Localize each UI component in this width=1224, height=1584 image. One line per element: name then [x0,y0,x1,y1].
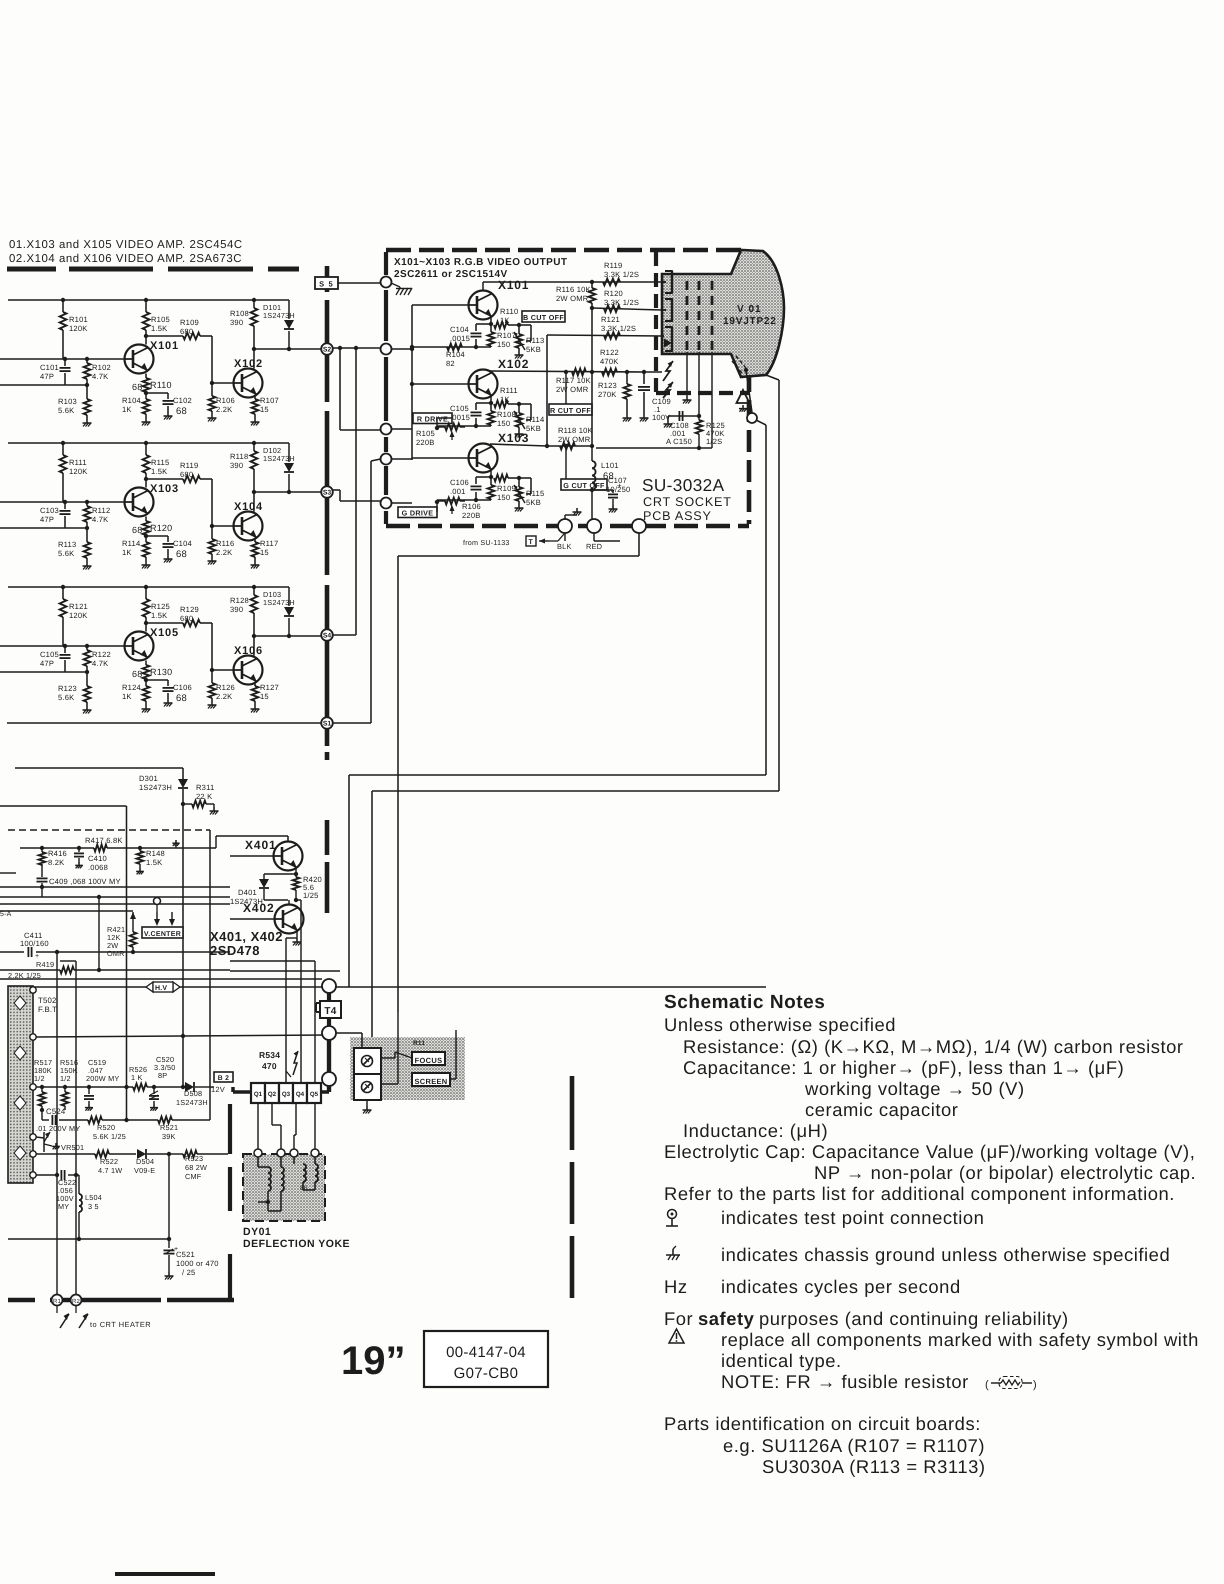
svg-text:2.2K: 2.2K [216,548,232,557]
wire S1 to R input [333,459,381,723]
svg-text:5.6K: 5.6K [58,406,74,415]
CRT block top border (heavy dashed) [386,248,749,253]
resistor R117 [556,369,591,394]
CRT block title [394,257,568,280]
FBT pin [30,987,36,993]
FBT pin [30,1151,36,1157]
resistor R101 [60,300,88,359]
ground C107 [609,505,618,513]
node 1033 [322,1026,336,1040]
svg-text:S 5: S 5 [319,280,334,289]
label box R DRIVE [413,413,452,424]
ground X402 [293,931,302,946]
CRT block inner border (heavy dashed) [656,252,749,393]
resistor R130 emitter [132,661,172,680]
svg-text:C103: C103 [40,506,59,515]
svg-text:2SC2611 or 2SC1514V: 2SC2611 or 2SC1514V [394,269,508,280]
resistor R129 [144,605,212,670]
wire focus box to label [381,1052,412,1058]
resistor R523 [169,1151,228,1181]
svg-text:1K: 1K [122,692,132,701]
svg-text:H.V: H.V [155,985,167,992]
label box FOCUS [412,1052,445,1065]
svg-text:Capacitance: 1 or higher→ (pF): Capacitance: 1 or higher→ (pF), less tha… [683,1057,1124,1078]
svg-text:R311: R311 [196,783,214,792]
capacitor C101 [40,359,71,385]
input node R [381,454,392,465]
svg-text:68: 68 [132,382,142,392]
capacitor C104 [450,324,491,347]
svg-text:02.X104 and X106 VIDEO AMP. 2S: 02.X104 and X106 VIDEO AMP. 2SA673C [9,253,242,265]
wire input row X103 [0,526,89,530]
resistor emitter [489,471,521,482]
svg-text:3.3K 1/2S: 3.3K 1/2S [604,298,639,307]
resistor R148 [136,848,165,874]
wire G2 line [698,352,700,416]
CRT block right border (heavy dashed) [747,250,752,524]
svg-text:D508: D508 [184,1089,202,1098]
capacitor C521 [164,1246,219,1277]
wire row 887 [0,885,230,889]
connector S5 [315,277,338,289]
resistor R126 [209,670,235,701]
svg-text:220B: 220B [462,511,481,520]
wire row 897 [0,895,230,899]
svg-text:R123: R123 [58,684,77,693]
svg-text:C409 ,068 100V MY: C409 ,068 100V MY [49,877,121,886]
svg-text:.01 200V MY: .01 200V MY [36,1124,80,1133]
svg-text:15: 15 [260,692,269,701]
svg-text:R121: R121 [69,602,88,611]
svg-text:3 5: 3 5 [88,1202,99,1211]
ground BLK pin [565,508,582,519]
svg-text:5.6K: 5.6K [58,549,74,558]
wire emitter bottom row [437,498,491,502]
svg-text:120K: 120K [69,324,88,333]
resistor R125 [696,416,725,450]
label box G CUT OFF [561,479,607,490]
svg-text:R121: R121 [601,315,620,324]
svg-text:Q3: Q3 [282,1091,291,1098]
svg-text:39K: 39K [162,1132,176,1141]
svg-text:R111: R111 [500,386,518,395]
ground R115 [515,504,524,512]
resistor R421 [107,912,136,958]
svg-text:C410: C410 [88,854,107,863]
label box SCREEN [412,1073,450,1086]
wire Q5 feed [314,961,316,1083]
FBT pin [30,1134,36,1140]
wire HV row [33,986,766,988]
svg-text:2W OMR: 2W OMR [556,294,589,303]
resistor R516 [60,1058,78,1110]
svg-text:R119: R119 [180,461,198,470]
spark gaps [663,361,673,398]
svg-text:470: 470 [262,1061,277,1071]
svg-text:R DRIVE: R DRIVE [417,414,448,423]
svg-text:indicates chassis ground unles: indicates chassis ground unless otherwis… [721,1244,1170,1265]
transistor X101 output [412,278,529,320]
svg-text:47P: 47P [40,372,54,381]
svg-text:L101: L101 [601,461,619,470]
transistor X103 [125,483,179,517]
ground R116 [208,557,217,565]
transistor X102 [210,358,263,398]
resistor R117 [252,539,279,561]
svg-text:R108: R108 [497,410,516,419]
resistor R103 [58,385,90,419]
svg-text:Electrolytic Cap: Capacitance: Electrolytic Cap: Capacitance Value (μF)… [664,1141,1195,1162]
resistor R119 [144,461,212,526]
svg-text:R104: R104 [446,350,465,359]
svg-text:R114: R114 [122,539,140,548]
wire emitter bottom row [437,424,491,428]
lower block bottom border (heavy dashed) [8,1298,234,1303]
svg-text:Resistance: (Ω) (K→KΩ, M→MΩ),: Resistance: (Ω) (K→KΩ, M→MΩ), 1/4 (W) ca… [683,1036,1184,1057]
spark gap Q [286,1051,298,1077]
transistor X102 output [412,357,529,399]
svg-text:R123: R123 [598,381,617,390]
svg-text:R122: R122 [600,348,619,357]
resistor R104 [122,391,149,418]
FBT pin [30,1172,36,1178]
svg-text:purposes (and continuing relia: purposes (and continuing reliability) [759,1308,1069,1329]
resistor R122 [600,348,619,375]
svg-text:R109: R109 [180,318,199,327]
wire screen wire [381,1012,398,1084]
capacitor C519 [84,1058,119,1111]
svg-text:5KB: 5KB [526,498,541,507]
svg-text:S3: S3 [323,490,332,497]
svg-text:X102: X102 [498,357,529,371]
wire input stubs [392,349,413,503]
resistor R121 [601,315,636,339]
svg-text:R419: R419 [36,960,54,969]
svg-text:X106: X106 [234,645,263,657]
right border dashed 572 [570,1076,575,1298]
svg-text:Unless otherwise specified: Unless otherwise specified [664,1014,896,1035]
notes test point icon [666,1210,678,1227]
svg-text:R521: R521 [160,1123,178,1132]
svg-text:T4: T4 [324,1006,336,1017]
transistor X105 [125,627,179,661]
svg-text:R103: R103 [58,397,77,406]
svg-text:indicates test point connectio: indicates test point connection [721,1207,984,1228]
connector S3 [321,486,333,498]
svg-text:R520: R520 [97,1123,115,1132]
svg-text:1.5K: 1.5K [151,467,167,476]
connector Q1-Q5 [251,1083,321,1103]
svg-text:R124: R124 [122,683,141,692]
svg-text:G CUT OFF: G CUT OFF [563,481,605,490]
svg-text:X401: X401 [245,838,277,852]
ground R311 [210,807,219,815]
wire anode to HV vertical [756,420,766,775]
svg-text:C105: C105 [40,650,59,659]
svg-text:200W MY: 200W MY [86,1074,119,1083]
wire B collector rail [483,280,662,291]
svg-text:RED: RED [586,542,602,551]
svg-text:47P: 47P [40,659,54,668]
svg-text:Schematic Notes: Schematic Notes [664,992,825,1013]
svg-text:390: 390 [230,605,243,614]
label C109 [652,397,671,422]
svg-text:01.X103 and X105 VIDEO AMP. 2S: 01.X103 and X105 VIDEO AMP. 2SC454C [9,239,243,251]
svg-text:safety: safety [698,1308,755,1329]
svg-text:15: 15 [260,405,269,414]
ground R114 [515,430,524,438]
transistor X106 [210,645,263,685]
CRT gun pin arrow [662,327,673,351]
resistor R106 [209,383,235,414]
wire G1 to ground [683,352,692,404]
resistor R420 [293,874,322,902]
wire S5 to block [338,282,381,284]
resistor R113 [58,528,90,562]
resistor R109 [144,318,212,383]
capacitor C410 [74,848,108,872]
wire fan rows to T4 [0,961,340,979]
svg-text:86: 86 [300,1185,308,1192]
svg-text:R106: R106 [216,396,235,405]
svg-text:R113: R113 [58,540,76,549]
svg-text:X103: X103 [150,483,179,495]
svg-text:D401: D401 [238,888,257,897]
schematic notes [664,992,825,1013]
svg-text:R125: R125 [151,602,170,611]
arrows CRT heater [57,1306,88,1328]
notes chassis ground icon [666,1246,680,1260]
label DY01 [243,1226,350,1250]
capacitor C522 [36,1170,79,1211]
resistor R115 [143,443,170,488]
svg-text:R122: R122 [92,650,111,659]
transistor X402 [230,900,304,934]
svg-text:SCREEN: SCREEN [414,1077,447,1086]
resistor R119 [603,261,639,285]
wire D301 feed [15,768,183,779]
svg-text:X103: X103 [498,431,529,445]
ground C102 [164,412,173,420]
svg-text:R522: R522 [100,1157,118,1166]
pin BLK [557,519,572,551]
wire Q4 up [296,900,301,1083]
ground R103 [83,419,92,427]
focus screen panel [350,1037,465,1100]
svg-text:3.3K 1/2S: 3.3K 1/2S [604,270,639,279]
svg-text:C101: C101 [40,363,59,372]
pin R2 [71,1295,82,1306]
svg-text:V09-E: V09-E [134,1166,155,1175]
svg-text:Q2: Q2 [268,1091,277,1098]
wire R cutoff feeds [564,372,568,479]
svg-text:R107: R107 [497,331,516,340]
resistor R311 [181,783,215,807]
svg-text:R CUT OFF: R CUT OFF [550,406,591,415]
transistor X401 [230,838,303,871]
ground top input [391,283,412,295]
wire D102 to 492connector row [252,490,321,494]
resistor R105 drive [416,418,465,447]
svg-text:S2: S2 [323,347,332,354]
yoke vertical coils [294,1157,318,1192]
resistor R522 [95,1151,136,1175]
lower block top border dashed [8,829,210,831]
wire emitter bottom row [447,345,491,349]
svg-text:R116: R116 [216,539,234,548]
node 1079 [322,1072,336,1086]
left block top border (heavy dashed) [7,267,299,272]
trimmer R114 [514,404,544,433]
label PCB ASSY [643,509,712,523]
svg-text:VR501: VR501 [61,1143,84,1152]
svg-text:Q1: Q1 [254,1091,263,1098]
resistor R118 [230,443,257,512]
connector T4 [316,1001,341,1018]
resistor R120 [604,289,639,312]
wire Q2 to yoke [272,1103,281,1150]
svg-text:R112: R112 [92,506,110,515]
resistor R108 [488,404,516,428]
wire D103 to 636connector row [252,634,321,638]
wire G collector rail [490,444,592,448]
svg-text:R104: R104 [122,396,141,405]
svg-text:X102: X102 [234,358,263,370]
resistor R128 [230,587,257,656]
wire screen horizontal [372,791,779,1043]
svg-text:B 2: B 2 [218,1075,229,1082]
notes For safety line [664,1308,1069,1329]
svg-text:68: 68 [176,693,187,704]
svg-text:X101: X101 [498,278,529,292]
svg-text:390: 390 [230,461,243,470]
svg-text:1/2: 1/2 [60,1074,71,1083]
svg-text:identical type.: identical type. [721,1350,842,1371]
svg-text:R2: R2 [72,1298,81,1305]
transistor X101 [125,340,179,374]
capacitor C106 [450,477,491,500]
svg-text:NOTE: FR → fusible resistor: NOTE: FR → fusible resistor [721,1371,969,1392]
svg-text:e.g. SU1126A (R107 = R1107): e.g. SU1126A (R107 = R1107) [723,1435,985,1456]
svg-text:4.7K: 4.7K [92,372,108,381]
svg-text:120K: 120K [69,611,88,620]
resistor R104 [410,344,465,368]
wire heater line [596,352,712,448]
svg-text:CMF: CMF [185,1172,202,1181]
svg-text:.0015: .0015 [450,334,470,343]
svg-text:1000 or 470: 1000 or 470 [176,1259,219,1268]
svg-text:R108: R108 [230,309,249,318]
capacitor C411 [20,931,49,960]
svg-text:15: 15 [260,548,269,557]
CRT socket pin dashes [687,281,712,352]
trimmer R115 [514,478,544,507]
svg-text:indicates cycles per second: indicates cycles per second [721,1276,961,1297]
svg-text:R11: R11 [413,1040,425,1047]
arrows V center [154,912,175,926]
svg-text:4.7 1W: 4.7 1W [98,1166,122,1175]
svg-text:2W OMR: 2W OMR [556,385,589,394]
svg-text:C521: C521 [176,1250,195,1259]
connector S1 [321,717,333,729]
svg-text:T: T [529,539,534,546]
test point V center [154,898,161,913]
pin RED [586,519,602,551]
svg-text:82: 82 [446,359,455,368]
resistor R118 [558,426,593,449]
svg-text:2.2K: 2.2K [216,405,232,414]
input node B [381,344,392,355]
svg-text:X401, X402: X401, X402 [210,929,283,944]
resistor R109 [488,478,516,502]
svg-text:DY01: DY01 [243,1226,271,1238]
svg-text:R416: R416 [48,849,67,858]
svg-text:8.2K: 8.2K [48,858,64,867]
svg-text:For: For [664,1308,693,1329]
resistor R107 [488,325,516,349]
svg-text:R107: R107 [260,396,279,405]
wire vertical 183 [182,804,184,1087]
inductor L101 [592,446,619,490]
svg-text:(: ( [985,1379,989,1391]
resistor R125 [143,587,170,632]
wire vertical 592 [590,308,594,448]
svg-text:D301: D301 [139,774,158,783]
ground R123 [83,706,92,714]
svg-text:150: 150 [497,493,510,502]
ground R124 [142,705,151,713]
svg-text:G DRIVE: G DRIVE [402,508,434,517]
wire base row X103 [0,500,124,504]
label CRT SOCKET [643,495,732,509]
svg-text:R130: R130 [150,667,172,677]
svg-text:C104: C104 [173,539,192,548]
svg-text:1S2473H: 1S2473H [176,1098,208,1107]
resistor R123 [58,672,90,706]
svg-text:120K: 120K [69,467,88,476]
wire vertical 210 [209,830,211,1120]
CRT V01 19VJTP22 [662,250,784,377]
svg-text:R119: R119 [604,261,622,270]
wire S3 to G input [333,490,381,501]
resistor R114 [122,534,149,561]
resistor R124 [122,678,149,705]
resistor R106 drive [435,498,481,520]
svg-text:5KB: 5KB [526,345,541,354]
wire base row X101 [0,357,124,361]
svg-text:SU3030A (R113 = R3113): SU3030A (R113 = R3113) [762,1456,986,1477]
capacitor C108 [666,411,701,446]
safety triangle anode [737,390,750,412]
wire R collector rail [490,370,646,374]
part number box [424,1331,548,1387]
yoke pin [277,1149,285,1157]
label from SU-1133 [463,534,564,547]
ground C106 [164,699,173,707]
svg-text:PCB ASSY: PCB ASSY [643,509,712,523]
svg-text:470K: 470K [600,357,619,366]
svg-text:R126: R126 [216,683,235,692]
resistor R526 [129,1065,154,1090]
yoke pin [290,1149,298,1157]
wire focus horizontal [349,775,766,987]
svg-text:270K: 270K [598,390,617,399]
transistor X103 output [412,431,529,473]
label box R CUT OFF [549,404,592,415]
ground focus box [363,1100,372,1114]
label box V.CENTER [142,927,183,938]
label SU-3032A [642,475,725,495]
